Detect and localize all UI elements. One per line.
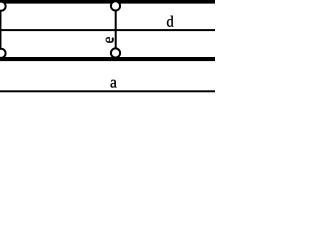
node: bottom-left circle	[0, 49, 6, 58]
wire: right vertical edge e	[115, 6, 117, 53]
node: top-left circle	[0, 2, 6, 11]
wire: top thick horizontal line	[0, 0, 215, 4]
label d	[167, 16, 173, 27]
label a	[111, 80, 117, 88]
node: top-right circle	[111, 1, 120, 10]
node: bottom-right circle	[111, 48, 120, 57]
wire: thin horizontal line a	[0, 90, 215, 92]
label e	[106, 37, 114, 43]
wire: middle thick horizontal line	[0, 57, 215, 61]
wire: thin horizontal line d	[0, 29, 215, 31]
wire: left vertical edge	[0, 6, 2, 53]
